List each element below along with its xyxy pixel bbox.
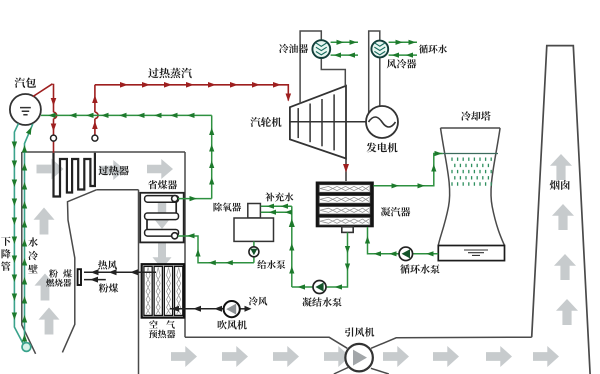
arrow: economizer riser up 4 [209,128,214,136]
arrow: condensate left 1 [285,210,293,215]
pipe: makeup water inlet 补充水 [261,205,292,207]
label: 补充水 makeup water [265,193,293,202]
arrow: riser up 7 [22,220,27,228]
label: 汽轮机 steam turbine [251,117,282,127]
chimney [532,46,590,374]
pipe: economizer outlet [178,198,212,200]
pipe: superheated steam main 过热蒸汽 [95,85,288,101]
arrow: cold air left 2 [214,306,222,312]
pump 循环水泵 (circulating pump) [399,247,413,260]
turbine-generator shaft [290,121,366,123]
arrow: air cooler in 1 [392,53,400,58]
turbine stage line 3 [321,99,323,146]
pump 凝结水泵 (condensate pump) [313,281,326,294]
flue gas arrow up (chimney 1) [550,154,572,180]
pipe: cold air intake [240,308,245,310]
pipe: condensate to deaerator [261,206,292,287]
arrow: main steam right 8 [273,82,281,88]
arrow: makeup left 2 [267,204,275,209]
label: 冷却塔 cooling tower [461,111,491,121]
label: 粉煤 pulverized coal [99,283,118,292]
label: 下降管 downcomer (vertical) [1,237,11,271]
arrow: feedwater left 2 [69,113,77,118]
arrow: main steam right 6 [230,82,238,88]
turbine stage line 2 [309,104,311,143]
pump 给水泵 (feed pump) [249,247,259,257]
arrow: riser up 10 [22,163,27,171]
label: 冷风 cold air [249,296,268,305]
backpass right wall [184,152,186,337]
arrow: downcomer down 10 [12,313,17,321]
pipe: oil cooler water in [331,54,358,56]
drum water level symbol [20,108,31,115]
arrow: feedwater left 4 [101,113,109,118]
arrow: riser into drum [26,127,32,135]
arrow: superheated steam up 2 [92,121,98,129]
arrow: economizer riser up 1 [209,177,214,185]
flue gas arrow right (furnace top) [37,159,64,180]
arrow: circ pump out left 1 [389,251,397,256]
arrow: condensate pump out left [298,284,306,289]
burner 粉煤燃烧器 [78,269,81,285]
label: 冷油器 oil cooler [279,44,308,53]
label: 发电机 generator [367,143,398,153]
fan 吹风机 (FD fan) [224,301,240,317]
arrow: air cooler out 2 [409,40,417,45]
turbine stage line 1 [297,108,299,138]
flue gas arrow up (furnace lower) [35,274,56,301]
arrow: feed line left 2 [208,260,216,265]
arrow: feed line left 1 [225,260,233,265]
air cooler 风冷器 [371,41,388,58]
arrow: condensate up 1 [289,219,295,228]
arrow: main steam right 1 [120,82,128,88]
pipe: drum to superheater (saturated steam) [33,84,57,153]
pipe: turbine exhaust to condenser [345,159,347,182]
label: 引风机 ID fan [345,327,374,337]
pipe: feedwater main to drum [41,114,212,116]
flue gas arrow down (inside economizer) [152,201,172,229]
lower drum (mud drum) circle [22,343,31,352]
economizer tube bank 2 [145,213,179,220]
arrow: circ pump out left 2 [374,251,382,256]
arrow: circ water up to tower [431,164,436,172]
arrow: feedwater left 3 [86,113,94,118]
flue gas arrow right (duct 5) [383,346,409,367]
condenser hotwell stub [342,227,353,233]
flue duct top line (right of ID fan) [371,337,532,348]
furnace left wall [22,152,36,354]
arrow: riser up 9 [22,182,27,190]
arrow: riser up 3 [22,296,27,304]
arrow: downcomer down 9 [12,294,17,302]
valve on downcomer to superheater [51,135,57,141]
arrow: downcomer down 4 [12,199,17,207]
label: 过热蒸汽 superheated steam [148,68,192,78]
arrow: feedwater left 6 [137,113,145,118]
economizer box [140,193,184,243]
arrow: feedwater left 1 [48,113,56,118]
arrow: makeup left 1 [281,204,289,209]
arrow: oil cooler in 2 [348,53,356,58]
pipe: condenser to cooling tower [373,154,442,186]
arrow: downcomer down 8 [12,275,17,283]
air preheater matrix channels [144,266,152,315]
label: 除氧器 deaerator [214,203,242,212]
pipe: downcomer 下降管 [14,124,23,345]
arrow: hot air left 3 [130,269,138,275]
label: 循环水泵 circulating pump [400,264,440,273]
pipe: air cooler water in [389,54,417,56]
arrow: condensate up 3 [289,266,294,274]
boiler top edge [22,151,185,153]
pipe: circulating pump to condenser [368,227,400,254]
arrow: circ water right 2 [418,183,426,188]
arrow: downcomer down 5 [12,218,17,226]
arrow: saturated steam down 1 [51,98,57,106]
arrow: feedwater left 9 [187,113,195,118]
arrow: feed line up [195,249,200,257]
oil cooler 冷油器 [312,40,330,58]
flue gas arrow right (duct 2) [222,346,248,367]
label: 凝汽器 condenser [381,207,411,216]
oil cooler pipe loop [300,31,345,104]
flue gas arrow up (chimney 3) [554,254,576,280]
arrow: riser up 5 [22,258,27,266]
economizer inlet header [172,233,178,239]
flue gas arrow up (furnace bottom) [39,308,60,335]
arrow: economizer outlet right [190,196,198,201]
pipe: pulverized coal to burner 粉煤 [84,279,106,281]
pipe: condensate pump outlet [292,286,313,288]
pipe: economizer riser [211,115,213,198]
arrow: main steam right 7 [252,82,260,88]
basin water level symbol [464,250,488,255]
arrow: downcomer down 7 [12,256,17,264]
pipe: cold air into preheater [170,308,224,310]
arrow: oil cooler out 2 [350,40,358,45]
cooling tower shell [438,128,504,246]
arrow: feedwater left 7 [154,113,162,118]
arrow: circ water into tower [435,151,443,156]
generator sine symbol [369,117,396,127]
economizer outlet header [172,196,178,202]
flue gas arrow right (duct 8) [533,346,559,367]
arrow: riser up 8 [22,201,27,209]
arrow: cold air into preheater [171,306,179,312]
spray water dashes in tower [452,158,491,186]
turbine stage line 4 [333,94,335,150]
arrow: coal left [90,277,98,283]
arrow: exhaust steam down [343,164,349,173]
arrow: main steam right 5 [208,82,216,88]
arrow: downcomer down 3 [12,180,17,188]
arrow: riser up 6 [22,239,27,247]
label: 省煤器 economizer [148,180,177,189]
arrow: downcomer down 2 [12,161,17,169]
flue gas arrow right (duct 4) [324,346,350,367]
arrow: economizer riser up 3 [209,144,214,152]
arrow: superheated steam up 1 [92,95,98,103]
arrow: riser up 1 [22,334,27,342]
arrow: air cooler in 2 [406,53,414,58]
arrow: main steam right 3 [164,82,172,88]
arrow: downcomer down 1 [12,142,17,150]
flue gas arrow right (duct 7) [486,346,512,367]
cooling tower basin [438,246,504,261]
deaerator column [248,204,261,219]
label: 吹风机 FD fan [218,320,247,329]
label: 汽包 steam drum [15,78,36,88]
arrow: economizer riser up 2 [209,161,214,169]
pipe: deaerator to feed pump [253,241,255,262]
arrow: hotwell down 2 [345,264,350,272]
air preheater box [142,264,184,317]
pipe: waterwall riser 水冷壁 [25,124,33,343]
flue gas arrow right (duct 1) [171,346,197,367]
flue gas arrow up (chimney 4) [556,299,578,325]
economizer bank connector left [146,220,148,230]
label: 热风 hot air [98,260,117,269]
arrow: feedwater left 5 [119,113,127,118]
valve on superheater outlet [92,135,98,141]
arrow: into condensate pump [335,284,343,289]
flue gas arrow up (furnace mid) [34,208,55,235]
label: 给水泵 feed pump [257,260,285,269]
pipe: superheater outlet riser (superheated steam) [95,85,98,141]
deaerator tank 除氧器 [234,218,274,241]
economizer tube bank 1 [145,196,179,203]
arrow: basin out left [426,251,434,256]
flue gas arrow right (above nose) [99,160,125,180]
arrow: oil cooler in 1 [334,53,342,58]
pipe: hot air to burner 热风 [84,271,156,273]
backpass left wall [138,190,140,374]
arrow: circ water right 1 [392,183,400,188]
air cooler pipe loop [369,31,380,113]
flue gas arrow right (duct 3) [273,346,299,367]
condenser body [316,182,373,227]
furnace right wall [62,190,96,353]
arrow: main steam right 2 [142,82,150,88]
arrow: feed line into economizer [187,233,195,238]
arrow: riser up 11 [22,145,27,153]
arrow: feedwater left 8 [170,113,178,118]
superheater serpentine coil [54,153,95,197]
label: 凝结水泵 condensate pump [302,297,341,306]
arrow: condensate up 2 [289,243,294,251]
cooling tower water distribution line [443,153,498,155]
arrow: hot air left 1 [91,269,99,275]
label: 燃烧器 burner [46,279,71,287]
label: 粉煤 burner line1 [49,269,72,278]
arrow: circ water up into condenser [365,236,370,244]
flue duct bottom flare right [371,368,389,374]
flue gas arrow right (duct 6) [433,346,459,367]
flue duct top line (left of ID fan) [185,337,347,348]
arrow: steam into turbine [286,94,292,102]
flue gas arrow right (to economizer) [147,159,173,179]
label: 水冷壁 waterwall (vertical) [28,237,38,273]
steam turbine body [290,86,346,159]
arrow: air cooler out 1 [396,40,404,45]
pipe: feed pump to economizer [178,236,254,263]
condenser tube rows [319,185,370,193]
furnace nose line [97,189,139,191]
arrow: main steam right 4 [186,82,194,88]
pipe: air cooler water out [389,41,417,43]
arrow: cold air intake tick [245,306,252,312]
arrow: downcomer down 6 [12,237,17,245]
arrow: cold air left 1 [193,306,201,312]
label: 空气 air (preheater) [149,320,175,329]
label: 烟囱 chimney [550,180,570,190]
flue gas arrow down (to air preheater) [153,243,172,269]
steam drum 汽包 [10,94,41,125]
label: 预热器 preheater [149,330,175,339]
fan 引风机 (ID fan) [345,344,373,372]
economizer tube bank 3 [145,230,179,237]
label: 风冷器 air cooler [387,59,417,69]
flue duct bottom flare left [334,368,348,374]
arrow: saturated steam down 2 [51,124,57,132]
generator 发电机 circle [366,106,398,138]
arrow: hotwell down 1 [345,246,350,254]
label: 循环水 circulating water [419,45,447,54]
arrow: riser up 2 [22,315,27,323]
pipe: condenser hotwell down [326,232,348,287]
flue gas arrow down (in economizer) [154,201,173,227]
arrow: condensate left 2 [269,210,277,215]
arrow: oil cooler out 1 [337,40,345,45]
flue gas arrow up (chimney 2) [552,204,574,230]
pipe: basin to circulating pump [413,253,439,255]
economizer bank connector right [175,202,177,212]
pipe: oil cooler water out [331,41,358,43]
arrow: hot air left 2 [109,269,117,275]
arrow: riser up 4 [22,277,27,285]
label: 过热器 superheater [99,166,129,176]
